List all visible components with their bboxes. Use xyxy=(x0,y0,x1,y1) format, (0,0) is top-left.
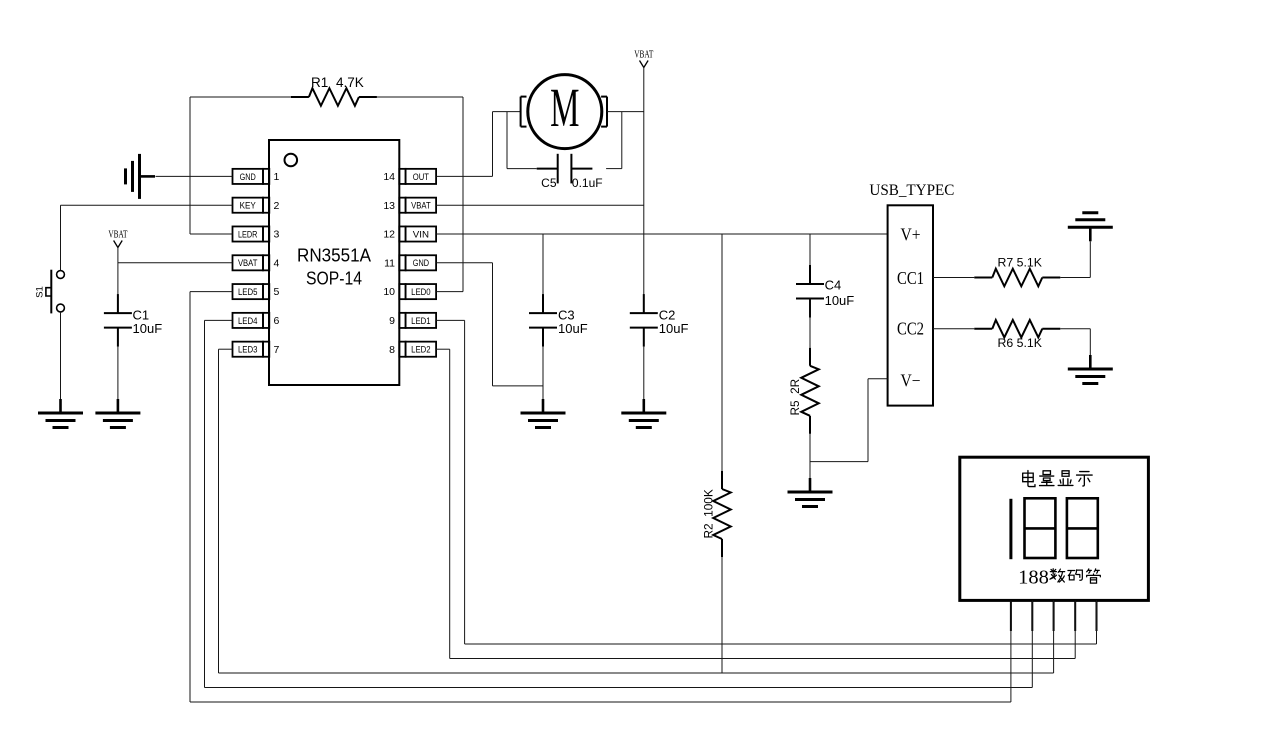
svg-text:14: 14 xyxy=(383,171,395,183)
svg-text:12: 12 xyxy=(383,229,395,241)
svg-text:R2 100K: R2 100K xyxy=(701,489,715,538)
svg-text:S1: S1 xyxy=(35,286,46,298)
svg-text:R6 5.1K: R6 5.1K xyxy=(998,336,1043,350)
svg-text:3: 3 xyxy=(274,229,280,241)
svg-text:LED3: LED3 xyxy=(238,345,258,356)
svg-text:RN3551A: RN3551A xyxy=(297,245,372,266)
svg-text:10uF: 10uF xyxy=(558,321,588,336)
svg-text:0.1uF: 0.1uF xyxy=(572,176,603,190)
svg-text:V+: V+ xyxy=(901,225,921,245)
svg-text:2: 2 xyxy=(274,200,280,212)
svg-text:R7 5.1K: R7 5.1K xyxy=(998,255,1043,269)
svg-text:5: 5 xyxy=(274,286,280,298)
svg-text:V−: V− xyxy=(901,371,921,391)
svg-text:8: 8 xyxy=(389,344,395,356)
svg-text:R1: R1 xyxy=(311,75,328,90)
svg-text:10uF: 10uF xyxy=(659,321,689,336)
svg-text:13: 13 xyxy=(383,200,395,212)
svg-text:4: 4 xyxy=(274,257,280,269)
svg-text:M: M xyxy=(550,77,579,138)
svg-text:VBAT: VBAT xyxy=(108,230,127,241)
svg-text:6: 6 xyxy=(274,315,280,327)
svg-text:1: 1 xyxy=(274,171,280,183)
svg-text:VBAT: VBAT xyxy=(634,50,653,61)
svg-text:LED2: LED2 xyxy=(411,345,431,356)
svg-text:10: 10 xyxy=(383,286,395,298)
svg-text:C4: C4 xyxy=(825,278,842,293)
svg-text:4.7K: 4.7K xyxy=(336,75,364,90)
svg-text:188: 188 xyxy=(1018,567,1049,589)
svg-text:OUT: OUT xyxy=(413,172,429,183)
svg-text:LEDR: LEDR xyxy=(238,229,258,240)
svg-text:KEY: KEY xyxy=(240,201,257,212)
svg-text:10uF: 10uF xyxy=(825,293,855,308)
svg-text:VIN: VIN xyxy=(413,229,429,240)
svg-text:R5 2R: R5 2R xyxy=(788,379,802,416)
svg-text:VBAT: VBAT xyxy=(411,201,431,212)
svg-text:CC1: CC1 xyxy=(897,268,924,288)
svg-text:GND: GND xyxy=(413,258,429,269)
svg-text:GND: GND xyxy=(240,172,256,183)
svg-text:7: 7 xyxy=(274,344,280,356)
svg-text:LED5: LED5 xyxy=(238,287,258,298)
svg-text:C5: C5 xyxy=(541,176,557,190)
svg-text:LED4: LED4 xyxy=(238,316,258,327)
svg-text:LED1: LED1 xyxy=(411,316,431,327)
svg-text:10uF: 10uF xyxy=(133,321,163,336)
svg-text:USB_TYPEC: USB_TYPEC xyxy=(869,182,954,199)
svg-text:CC2: CC2 xyxy=(897,319,924,339)
svg-text:VBAT: VBAT xyxy=(238,258,258,269)
svg-text:LED0: LED0 xyxy=(411,287,431,298)
svg-text:11: 11 xyxy=(384,257,395,269)
svg-text:SOP-14: SOP-14 xyxy=(306,268,362,289)
svg-text:9: 9 xyxy=(389,315,395,327)
